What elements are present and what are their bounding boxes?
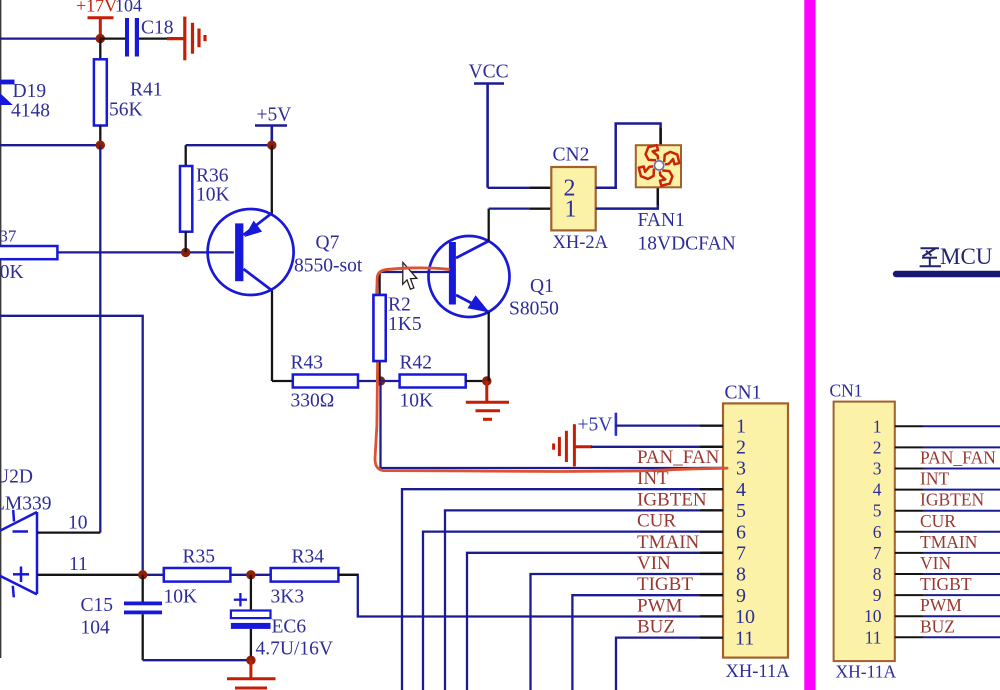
wire R2 top to Q1 base [380,271,449,273]
wire C15 bottom to EC6 bottom [143,659,251,661]
svg-text:PAN_FAN: PAN_FAN [920,448,996,468]
svg-text:+17V: +17V [76,0,117,16]
svg-text:11: 11 [735,627,754,649]
wire C18 to ground [139,37,167,39]
resistor R2 body overlay (hides annotation) [374,295,386,361]
wire VIN from CN1 pin8 [531,574,724,690]
resistor R43 [293,375,358,388]
svg-text:R34: R34 [292,547,325,568]
capacitor C18 [125,18,139,57]
capacitor C15 [142,575,144,602]
svg-text:TMAIN: TMAIN [920,532,978,552]
svg-text:D19: D19 [13,81,47,102]
junction at +17V node [96,34,105,43]
CN1 pin stubs [700,426,723,638]
svg-text:BUZ: BUZ [920,616,955,636]
ground at EC6 (cut at bottom) [227,660,276,688]
junction R36 bottom / Q7 base node [181,248,190,257]
svg-text:6: 6 [736,521,746,543]
magenta divider bar [804,0,815,690]
left screenshot border line [0,0,2,658]
resistor R36 [185,145,187,166]
svg-text:MCU: MCU [940,244,993,269]
ground (rotated) at CN1 pin2 [554,424,592,466]
wire +5V to CN1 pin1 [615,424,723,426]
svg-text:2: 2 [873,437,882,457]
ground at Q1 emitter [466,381,509,419]
wire Q1 emitter down to ground junction [488,312,490,381]
svg-text:10K: 10K [196,185,230,206]
svg-text:U2D: U2D [0,467,33,488]
svg-text:PWM: PWM [920,595,962,615]
wire left edge at R41 bottom node [0,144,100,146]
junction R41 bottom [96,141,105,150]
svg-text:CN1: CN1 [830,381,863,401]
svg-text:+5V: +5V [578,415,613,436]
svg-text:3K3: 3K3 [271,587,305,608]
wire CN2 pin1 to fan bottom [596,187,658,208]
power port +5V at CN1 pin1 [615,413,618,436]
right CN1 pin numbers [864,416,882,647]
junction Q1 emitter / R42 / ground [482,376,491,385]
svg-text:8550-sot: 8550-sot [294,256,363,277]
wire +17V node to C18 [100,37,125,39]
svg-text:XH-11A: XH-11A [836,662,897,682]
wire +5V node to Q7 emitter [271,145,273,213]
svg-text:PAN_FAN: PAN_FAN [637,447,720,468]
svg-text:9: 9 [736,585,746,607]
transistor Q1 [429,236,510,317]
svg-text:VIN: VIN [920,553,951,573]
svg-text:7: 7 [873,543,882,563]
connector CN2 [551,167,595,230]
svg-text:IGBTEN: IGBTEN [920,490,985,510]
svg-text:VCC: VCC [469,62,509,83]
svg-text:5: 5 [873,501,882,521]
connector CN1 (right sheet preview) [834,402,895,661]
svg-text:LM339: LM339 [0,494,52,515]
svg-text:4: 4 [873,480,882,500]
svg-text:330Ω: 330Ω [291,391,335,412]
diode D19 (cut at left edge) [0,80,15,105]
wire op-amp pin 10 [37,531,100,533]
fan hub [655,161,664,170]
svg-text:104: 104 [81,618,111,639]
svg-text:56K: 56K [109,100,143,121]
svg-text:8: 8 [736,564,746,586]
resistor R2 [378,361,380,381]
wire VCC to CN2 pin2 [488,187,552,189]
wire IGBTEN from CN1 pin5 [445,510,723,690]
wire left edge to C15 node [0,316,143,575]
fan lead black segments [659,128,661,145]
wire CUR from CN1 pin6 [423,532,723,690]
wire Q1 collector to CN2 pin1 [489,207,552,209]
net labels at CN1 [637,447,720,638]
svg-text:11: 11 [865,627,882,647]
wire net +17V horizontal [0,37,100,39]
svg-text:R37: R37 [0,227,17,246]
op-amp U2D (mirrored, cut at left edge) [0,510,37,597]
svg-text:FAN1: FAN1 [638,210,685,231]
svg-text:PWM: PWM [637,595,683,616]
capacitor EC6 (electrolytic) [250,575,252,611]
svg-text:XH-2A: XH-2A [553,233,609,253]
mouse cursor [403,263,417,290]
svg-text:1: 1 [736,415,746,437]
resistor R41 [99,39,101,60]
svg-text:18VDCFAN: 18VDCFAN [638,234,736,255]
svg-text:104: 104 [115,0,142,16]
wire op-amp pin 11 to R35 [37,574,138,576]
wire R35 to R34 node [230,574,270,576]
svg-text:S8050: S8050 [509,299,559,320]
fan FAN1 symbol box [636,145,681,187]
wire Q1 collector up [488,209,490,241]
svg-text:R41: R41 [130,80,163,101]
svg-text:Q7: Q7 [316,233,340,254]
svg-text:10K: 10K [164,587,198,608]
svg-text:XH-11A: XH-11A [726,662,791,682]
svg-text:11: 11 [69,554,88,575]
transistor Q7 [208,209,294,295]
svg-text:VIN: VIN [637,553,671,574]
wire ground to CN1 pin2 [591,446,723,448]
junction C15 node [138,570,147,579]
right CN1 pin stubs [895,426,923,637]
wire R36 top to +5V node [186,144,272,146]
label 至MCU (right panel) [920,248,941,266]
wire PAN_FAN node down from R43/R42 junction [379,381,381,468]
power port VCC [474,84,504,188]
svg-text:5: 5 [736,500,746,522]
power port +17V [88,18,114,35]
svg-text:1: 1 [565,197,577,223]
svg-text:2: 2 [736,437,746,459]
wire BUZ from CN1 pin11 [616,638,723,690]
resistor R34 [271,568,339,582]
CN1 pin numbers 1-11 [735,415,755,649]
svg-text:CN1: CN1 [725,383,762,404]
junction +5V node [267,141,276,150]
svg-text:C18: C18 [141,18,174,39]
svg-text:R35: R35 [183,547,216,568]
wire Q7 collector down to R43 [271,291,273,382]
svg-text:CN2: CN2 [553,145,590,166]
wire long vertical to op-amp pin10 [99,145,101,532]
wire PAN_FAN to CN1 pin3 [381,467,724,469]
resistor R35 [164,568,231,582]
svg-text:3: 3 [873,459,882,479]
svg-text:EC6: EC6 [272,617,307,638]
wire INT from CN1 pin4 [402,489,723,690]
svg-text:R42: R42 [400,353,433,374]
svg-text:4148: 4148 [11,101,50,122]
svg-text:TIGBT: TIGBT [920,574,972,594]
svg-text:1K5: 1K5 [388,314,422,335]
svg-text:TMAIN: TMAIN [637,532,700,553]
svg-text:8: 8 [873,564,882,584]
svg-text:R36: R36 [196,166,229,187]
fan blades [635,141,684,190]
svg-text:10K: 10K [400,391,434,412]
wire TIGBT from CN1 pin9 [572,595,723,690]
svg-text:10: 10 [864,606,882,626]
power port +5V [255,126,287,146]
ground (rotated) at C18 [167,17,205,61]
svg-text:4.7U/16V: 4.7U/16V [256,639,333,660]
wire CN2 pin2 to fan top [596,124,661,188]
svg-text:+5V: +5V [257,105,292,126]
svg-text:C15: C15 [81,595,114,616]
svg-text:3: 3 [736,458,746,480]
wire R34 to CN1 pin10 (PWM) [338,575,723,617]
svg-text:4: 4 [736,479,746,501]
wire R43 to junction [358,380,381,382]
svg-text:7: 7 [736,543,746,565]
svg-text:R43: R43 [291,353,324,374]
resistor R37 (cut at left edge) [0,251,234,253]
svg-text:R2: R2 [388,295,411,316]
thick bus line to MCU [896,271,1000,277]
connector CN1 (left sheet) [723,403,788,657]
svg-text:IGBTEN: IGBTEN [637,489,707,510]
red annotation stroke (highlight of PAN_FAN path) [375,268,727,472]
svg-text:9: 9 [873,585,882,605]
svg-text:10: 10 [735,606,755,628]
svg-text:10K: 10K [0,262,24,283]
right net labels [920,448,996,637]
svg-text:CUR: CUR [920,511,956,531]
EC6 plus sign [234,593,247,606]
resistor R42 [381,380,400,382]
junction R43/R42/R2 [376,376,385,385]
svg-text:6: 6 [873,522,882,542]
svg-text:INT: INT [920,469,949,489]
svg-text:CUR: CUR [637,511,676,532]
svg-text:BUZ: BUZ [637,617,675,638]
svg-text:Q1: Q1 [530,276,554,297]
wire TMAIN from CN1 pin7 [467,553,723,690]
junction EC6 ground node [246,656,255,665]
svg-text:10: 10 [68,513,88,534]
right CN1 wires to edge [923,426,1000,637]
svg-text:1: 1 [873,416,882,436]
svg-text:TIGBT: TIGBT [637,574,693,595]
junction R35/R34/EC6 [246,570,255,579]
